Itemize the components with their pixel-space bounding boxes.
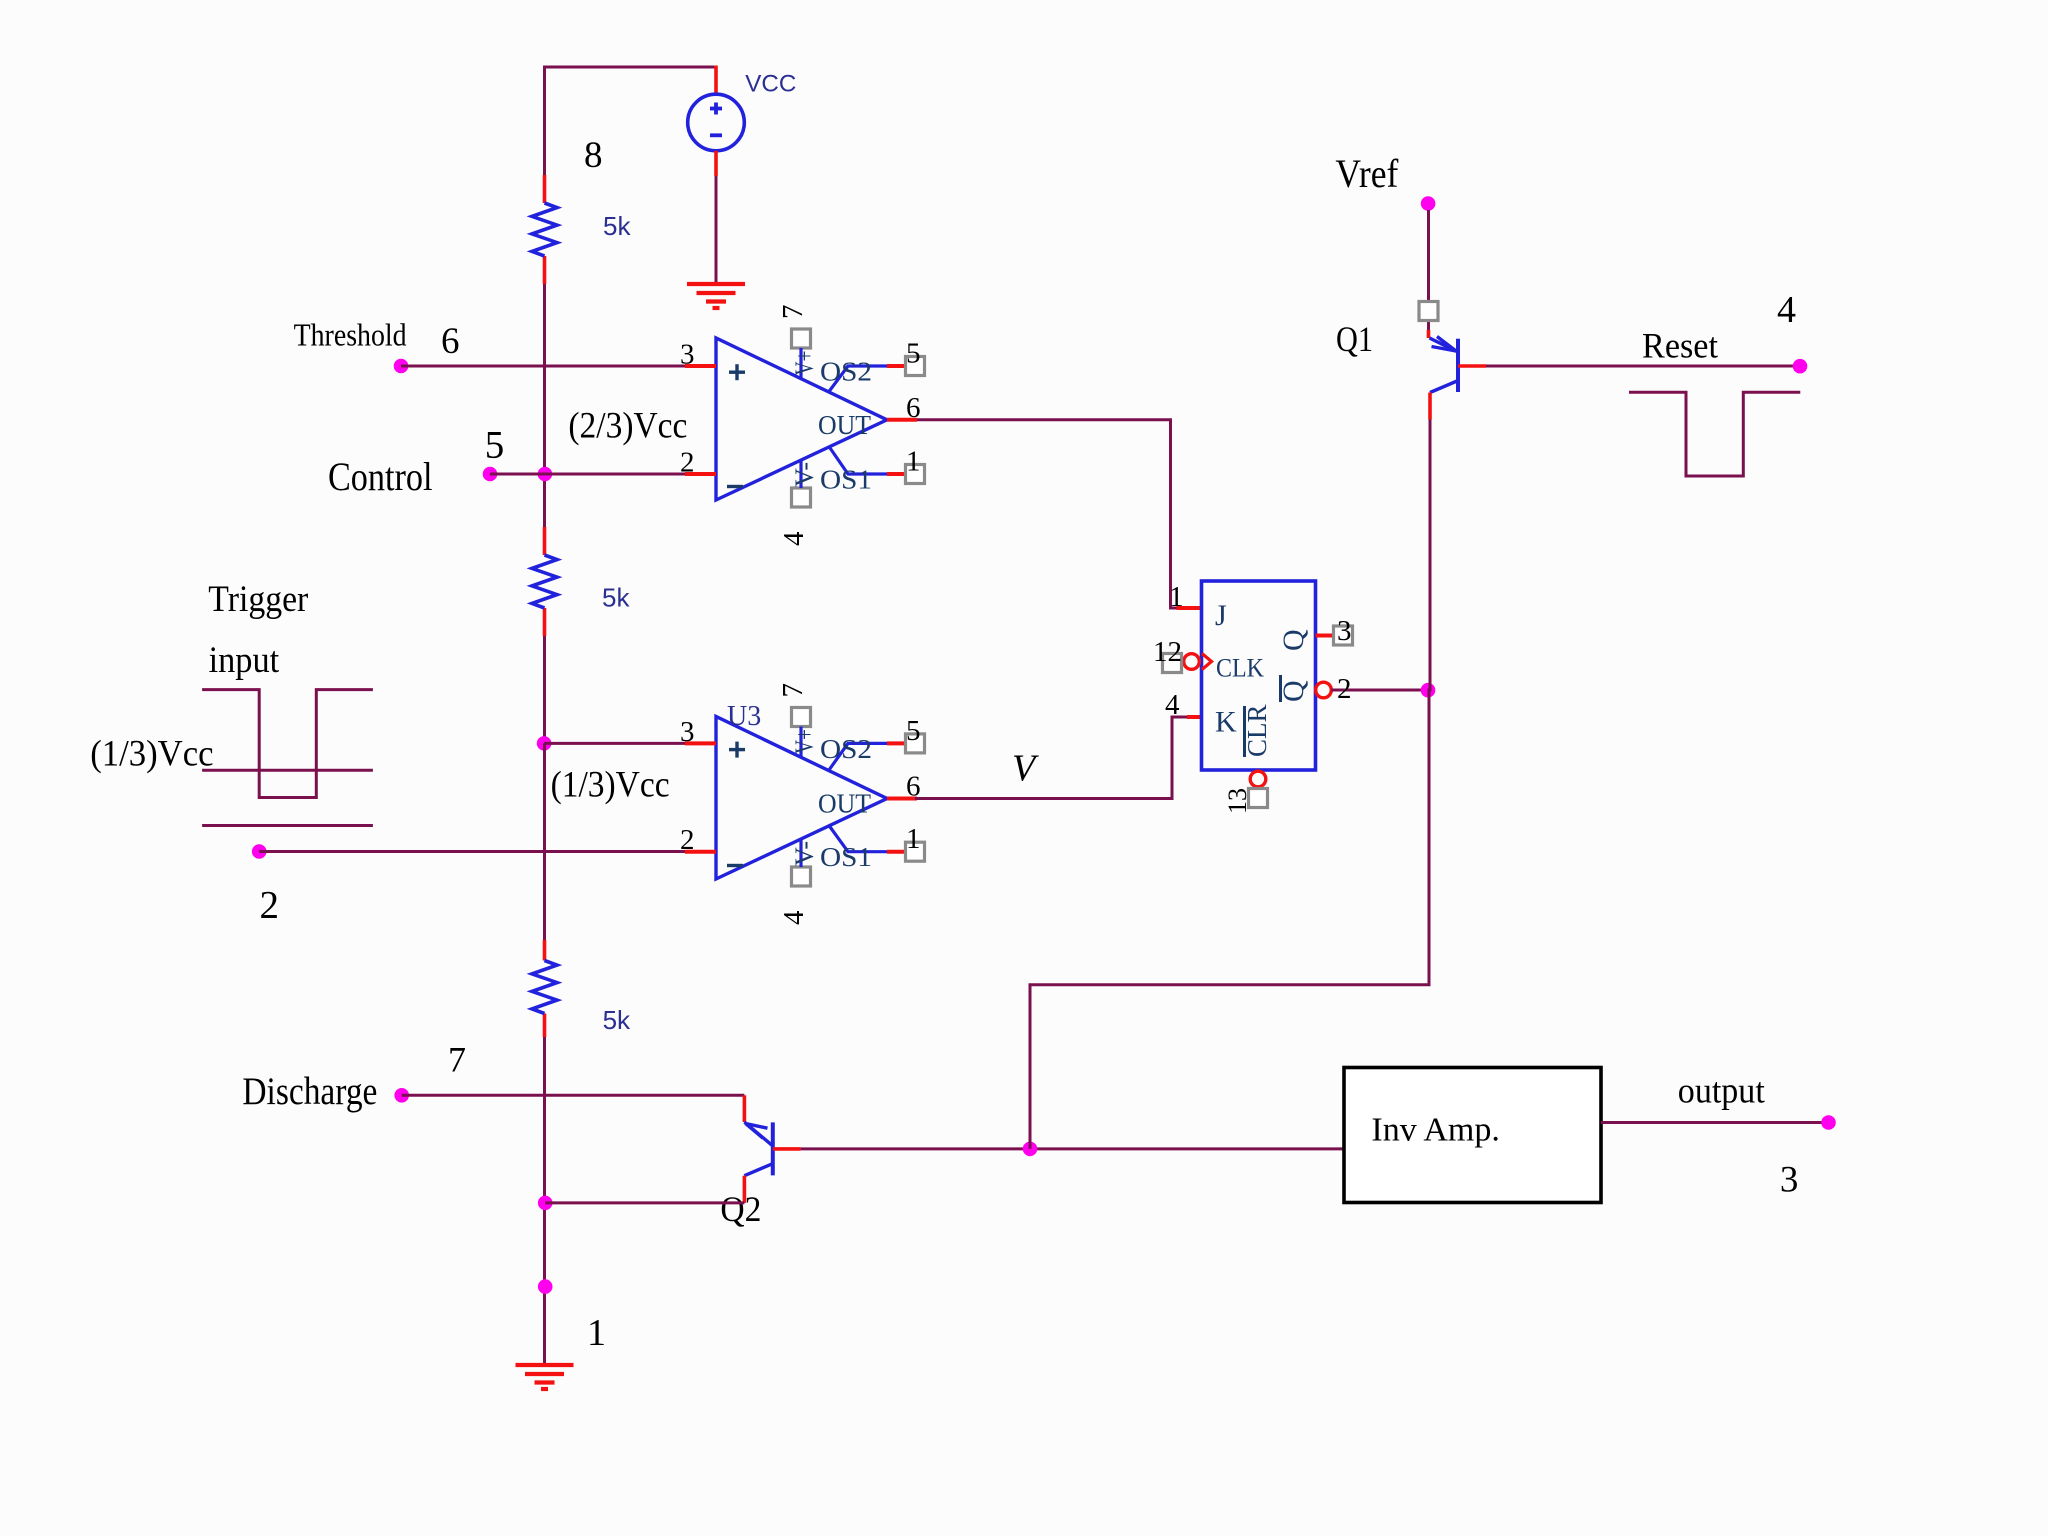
node Discharge terminal — [394, 1088, 409, 1103]
K pin stub — [1187, 715, 1202, 719]
wire node B down to R3 — [543, 743, 546, 940]
svg-text:Reset: Reset — [1642, 325, 1718, 365]
op-amp A - marker — [727, 485, 743, 488]
svg-text:3: 3 — [1780, 1159, 1799, 1200]
svg-text:(2/3)Vcc: (2/3)Vcc — [568, 406, 687, 447]
svg-text:5k: 5k — [603, 211, 631, 241]
Q pad — [1334, 626, 1353, 645]
svg-text:1: 1 — [906, 446, 921, 478]
wire VCC top horizontal — [543, 66, 716, 69]
Qbar bubble — [1316, 682, 1332, 698]
wire trigger to U3 -input — [259, 850, 685, 853]
wire U3 out to K pin — [915, 717, 1187, 799]
wire threshold to comparator — [401, 365, 685, 368]
svg-text:12: 12 — [1153, 636, 1182, 668]
op-amp U3 pin 2 stub — [685, 850, 716, 854]
svg-text:Trigger: Trigger — [208, 579, 308, 620]
op-amp U3 OS2 pin — [829, 743, 887, 770]
CLK wedge — [1202, 654, 1212, 670]
node control junction — [538, 467, 553, 482]
svg-text:OUT: OUT — [818, 789, 871, 819]
op-amp U3 pin 3 stub — [685, 741, 716, 745]
svg-text:1: 1 — [906, 823, 921, 855]
svg-text:V-: V- — [790, 462, 819, 487]
wire R3 to ground — [543, 1037, 546, 1365]
node Q2 base junction — [538, 1196, 553, 1211]
reset waveform — [1629, 392, 1800, 476]
op-amp comparator A triangle — [716, 338, 887, 500]
JK flip-flop body — [1202, 581, 1316, 770]
op-amp U3 OS1 pin — [829, 826, 887, 852]
wire inv amp output — [1601, 1121, 1822, 1124]
svg-text:output: output — [1678, 1071, 1765, 1111]
op-amp A + marker — [729, 371, 745, 374]
op-amp U3 - marker — [727, 864, 743, 867]
wire R2 to node B — [543, 636, 546, 743]
wire Q2 base stub right — [773, 1147, 801, 1151]
svg-text:13: 13 — [1223, 788, 1252, 814]
svg-text:OS1: OS1 — [820, 842, 872, 872]
op-amp A pin 3 stub — [685, 364, 716, 368]
svg-text:3: 3 — [1337, 615, 1352, 647]
op-amp U3 + marker — [729, 748, 745, 751]
trigger input waveform — [202, 690, 373, 798]
svg-text:Q: Q — [1277, 629, 1310, 651]
op-amp comparator U3 triangle — [716, 717, 887, 880]
op-amp U3 OUT pin — [887, 797, 917, 801]
svg-text:2: 2 — [260, 884, 280, 927]
svg-text:K: K — [1215, 706, 1237, 739]
svg-text:5k: 5k — [602, 583, 630, 613]
svg-text:(1/3)Vcc: (1/3)Vcc — [551, 764, 670, 805]
svg-text:V-: V- — [790, 841, 819, 866]
Inv Amp block — [1344, 1068, 1601, 1203]
svg-text:7: 7 — [448, 1040, 466, 1080]
op-amp U3 V- pin — [792, 867, 811, 886]
svg-text:V: V — [1012, 748, 1039, 790]
CLR pad — [1249, 789, 1268, 808]
op-amp A OUT pin — [887, 418, 917, 422]
Q1 emitter pad — [1419, 302, 1438, 321]
op-amp A OS2 pin — [829, 366, 887, 392]
wire Q1 base to Reset — [1486, 365, 1800, 368]
svg-text:Inv Amp.: Inv Amp. — [1371, 1112, 1499, 1149]
trigger zero level line — [202, 824, 373, 827]
node Threshold terminal — [394, 359, 409, 374]
svg-text:4: 4 — [778, 910, 810, 925]
CLK bubble — [1184, 654, 1200, 670]
node inv-amp input junction — [1023, 1142, 1038, 1157]
resistor R2 5k — [543, 527, 547, 555]
wire pin8 corner down to R1 — [543, 66, 546, 176]
wire Q2 base to inv amp — [801, 1147, 1343, 1150]
node Trigger terminal — [252, 844, 267, 859]
svg-text:OS1: OS1 — [820, 465, 872, 495]
svg-text:Q1: Q1 — [1336, 319, 1373, 359]
svg-text:V+: V+ — [790, 729, 819, 754]
op-amp A V- pin — [792, 488, 811, 507]
svg-text:5k: 5k — [603, 1005, 631, 1035]
svg-text:3: 3 — [680, 339, 695, 371]
svg-text:OS2: OS2 — [820, 734, 872, 764]
svg-text:input: input — [209, 640, 280, 681]
svg-text:OUT: OUT — [818, 410, 871, 440]
op-amp A V+ pin — [792, 329, 811, 348]
svg-text:U3: U3 — [727, 701, 761, 732]
wire discharge to Q2 — [402, 1094, 745, 1097]
wire Q1 collector down — [1030, 420, 1430, 1149]
resistor R3 5k — [543, 940, 547, 961]
wire Vref to Q1 emitter — [1427, 210, 1430, 330]
svg-text:V+: V+ — [790, 351, 819, 376]
trigger (1/3)Vcc level line — [202, 769, 373, 772]
svg-text:(1/3)Vcc: (1/3)Vcc — [90, 734, 213, 775]
wire Q1 collector stub — [1428, 393, 1432, 420]
svg-text:VCC: VCC — [745, 71, 796, 98]
wire VCC source top stub — [714, 66, 718, 95]
svg-text:7: 7 — [777, 305, 809, 320]
op-amp A OS1 pin — [829, 447, 887, 475]
svg-text:5: 5 — [906, 715, 921, 747]
svg-text:3: 3 — [680, 716, 695, 748]
wire Q2 emitter stub down — [743, 1176, 747, 1203]
svg-text:2: 2 — [680, 824, 695, 856]
wire R1 to control node — [543, 284, 546, 527]
wire node B to U3 +input — [544, 742, 685, 745]
svg-text:2: 2 — [1337, 673, 1352, 705]
wire Q2 emitter to chain — [545, 1201, 744, 1204]
voltage source VCC — [688, 94, 745, 151]
svg-text:J: J — [1215, 599, 1227, 632]
transistor Q2 — [771, 1122, 775, 1175]
node B junction (1/3 Vcc) — [537, 736, 552, 751]
svg-text:5: 5 — [906, 338, 921, 370]
svg-text:2: 2 — [680, 447, 695, 479]
svg-text:Discharge: Discharge — [242, 1070, 377, 1113]
wire Q1 base stub — [1458, 364, 1486, 368]
transistor Q1 — [1456, 339, 1460, 392]
svg-text:CLK: CLK — [1216, 654, 1264, 683]
svg-text:Q2: Q2 — [720, 1189, 761, 1229]
wire Q2 collector stub — [743, 1095, 747, 1122]
ground symbol (VCC source) — [687, 282, 745, 286]
ground symbol (bottom) — [516, 1363, 574, 1367]
node pin1 terminal — [538, 1279, 553, 1294]
op-amp A pin 2 stub — [685, 472, 716, 476]
node Qbar junction — [1421, 683, 1436, 698]
svg-text:1: 1 — [587, 1312, 606, 1354]
svg-text:4: 4 — [1777, 289, 1796, 331]
wire control to comparator — [490, 473, 685, 476]
CLK pad — [1163, 654, 1182, 673]
node Reset terminal — [1793, 359, 1808, 374]
resistor R1 5k — [543, 175, 547, 203]
wire comparator A out to J pin — [917, 420, 1177, 608]
svg-text:Vref: Vref — [1335, 151, 1399, 196]
op-amp U3 V+ pin — [792, 708, 811, 727]
svg-text:7: 7 — [777, 683, 809, 698]
svg-text:4: 4 — [778, 531, 810, 546]
node Vref terminal — [1421, 196, 1436, 211]
svg-text:1: 1 — [1169, 581, 1184, 613]
svg-text:OS2: OS2 — [820, 357, 872, 387]
svg-text:5: 5 — [485, 424, 505, 467]
CLR bubble — [1250, 771, 1266, 787]
node Control terminal — [483, 467, 498, 482]
svg-text:6: 6 — [441, 321, 460, 362]
Q pin stub — [1316, 634, 1334, 638]
svg-text:4: 4 — [1165, 689, 1180, 721]
wire Qbar to junction — [1332, 689, 1429, 692]
svg-text:Threshold: Threshold — [294, 316, 407, 352]
wire VCC source to ground — [715, 176, 718, 284]
J pin stub — [1177, 606, 1202, 610]
wire VCC source bottom stub — [714, 151, 718, 176]
svg-text:8: 8 — [584, 135, 603, 176]
svg-text:Control: Control — [328, 454, 433, 499]
node output terminal — [1821, 1115, 1836, 1130]
svg-text:CLR: CLR — [1242, 704, 1272, 757]
